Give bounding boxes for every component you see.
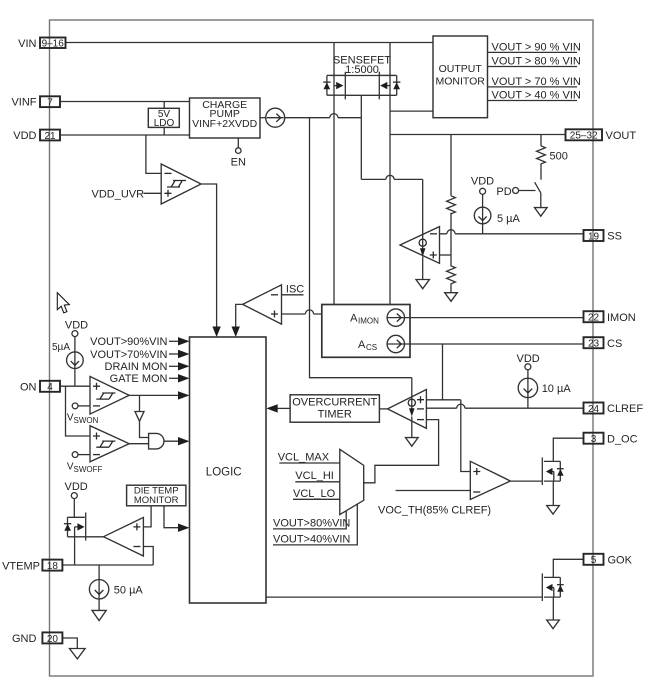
wire VINF	[60, 101, 190, 103]
wire CS branch to overcurrent comparator plus	[442, 344, 444, 400]
svg-text:25–32: 25–32	[570, 131, 598, 142]
wire branch to inverter	[139, 395, 141, 411]
node DRAIN MON	[105, 361, 190, 373]
transistor VTEMP clamp (gate right)	[64, 513, 104, 541]
arrow into LOGIC top (UVR)	[212, 327, 220, 338]
pin VDD 21	[13, 130, 60, 142]
label SENSEFET 1:5000	[333, 55, 391, 77]
pin IMON 22	[584, 311, 636, 324]
wire VOC_TH output to D_OC gate	[510, 480, 542, 482]
svg-text:VDD: VDD	[471, 176, 494, 188]
svg-text:OUTPUT: OUTPUT	[439, 63, 483, 75]
transistor GOK (gate left)	[542, 573, 563, 601]
terminal V_SWON	[67, 403, 99, 425]
wire V_SWON comparator output	[129, 394, 180, 396]
svg-text:TIMER: TIMER	[318, 409, 352, 421]
svg-text:VOUT > 90 % VIN: VOUT > 90 % VIN	[492, 41, 581, 53]
wire VOUT rail	[390, 134, 566, 136]
wire bias through SS comparator	[422, 179, 424, 248]
wire timer to LOGIC	[277, 407, 291, 409]
ground below GOK transistor	[547, 620, 560, 629]
block overcurrent timer	[290, 395, 379, 422]
label VDD (ON source)	[65, 320, 88, 337]
svg-text:18: 18	[47, 561, 59, 572]
wire V_SWOFF comparator output	[129, 443, 148, 445]
svg-text:LOGIC: LOGIC	[206, 467, 242, 479]
switch PD	[535, 168, 541, 208]
current source inside SS comparator	[419, 239, 426, 279]
wire IMON rail	[405, 317, 584, 319]
svg-text:VCL_LO: VCL_LO	[293, 488, 336, 500]
svg-text:21: 21	[44, 131, 56, 142]
wire GOK source to ground	[552, 597, 554, 620]
current source inside overcurrent comparator	[408, 399, 415, 438]
wire CS rail	[405, 343, 584, 345]
svg-text:24: 24	[588, 404, 600, 415]
svg-text:IMON: IMON	[607, 312, 636, 324]
current source 10uA	[518, 370, 571, 408]
current-flow symbol A_CS	[387, 335, 404, 352]
svg-text:PD: PD	[496, 186, 511, 198]
wire sensefet tap to SS comparator bias	[361, 175, 422, 179]
svg-text:19: 19	[588, 231, 600, 242]
terminal V_SWOFF	[67, 452, 103, 474]
wire GND pin	[62, 638, 77, 649]
wire comparator minus to VTEMP rail	[143, 547, 153, 566]
node VCL_LO	[293, 488, 340, 500]
svg-text:CS: CS	[607, 338, 622, 350]
gate AND	[149, 433, 164, 449]
svg-text:500: 500	[550, 151, 568, 163]
wire SS comparator plus input	[440, 254, 452, 256]
resistor SS upper	[447, 196, 456, 214]
wire sensefet right drain/source vertical	[389, 43, 391, 305]
svg-text:VOUT>40%VIN: VOUT>40%VIN	[273, 533, 350, 545]
wire charge pump output rail with hop over x=334	[285, 114, 362, 118]
wire VIN rail	[66, 42, 434, 44]
svg-text:EN: EN	[231, 156, 246, 168]
svg-text:CS: CS	[366, 343, 377, 352]
op-amp overcurrent comparator	[388, 390, 427, 429]
wire sensefet left drain/source vertical	[333, 43, 335, 305]
node VOUT > 70 % VIN	[488, 76, 581, 88]
svg-text:DRAIN MON: DRAIN MON	[105, 361, 168, 373]
inverter (open triangle)	[135, 412, 144, 422]
label PD	[496, 186, 535, 198]
wire charge pump output	[260, 117, 266, 119]
label VDD_UVR	[92, 188, 162, 200]
wire GOK pin to transistor	[553, 559, 583, 577]
svg-text:A: A	[358, 339, 366, 351]
svg-text:ON: ON	[20, 382, 37, 394]
pin D_OC 3	[584, 433, 638, 446]
svg-text:VCL_MAX: VCL_MAX	[278, 452, 330, 464]
mouse cursor	[57, 293, 69, 313]
svg-text:ISC: ISC	[286, 283, 304, 295]
node VOUT > 80 % VIN	[488, 55, 581, 67]
svg-text:23: 23	[588, 339, 600, 350]
wire comparator to timer	[379, 408, 387, 410]
label VDD (SS source)	[471, 176, 494, 195]
wire VOUT to upper divider	[450, 135, 452, 196]
label VDD (CLREF source)	[517, 353, 540, 370]
wire D_OC source to ground	[552, 481, 554, 506]
wire overcurrent plus rail	[426, 399, 460, 401]
wire plus rail down to VOC_TH with hop crossing	[461, 400, 471, 472]
ground below 50uA	[92, 610, 106, 620]
svg-text:VINF: VINF	[11, 97, 36, 109]
op-amp die temp comparator	[104, 517, 144, 556]
svg-text:VDD_UVR: VDD_UVR	[92, 188, 145, 200]
svg-text:9–16: 9–16	[42, 39, 65, 50]
svg-text:VTEMP: VTEMP	[2, 560, 40, 572]
svg-text:VOUT>70%VIN: VOUT>70%VIN	[90, 349, 167, 361]
wire LOGIC to GOK gate	[266, 596, 542, 598]
transistor sensefet left (gate right)	[323, 72, 345, 100]
wire into output monitor	[390, 110, 433, 112]
svg-text:MONITOR: MONITOR	[134, 495, 179, 506]
svg-text:5µA: 5µA	[52, 342, 70, 353]
node VOUT>40%VIN (mux select)	[273, 504, 357, 545]
node VOUT>80%VIN (mux select)	[273, 511, 350, 530]
node VOUT > 90 % VIN	[488, 41, 581, 53]
svg-text:VOUT > 40 % VIN: VOUT > 40 % VIN	[492, 89, 581, 101]
wire SS rail with hop at x=451	[440, 230, 584, 234]
arrow into LOGIC (die temp)	[178, 524, 190, 532]
pin CS 23	[584, 337, 623, 350]
svg-text:VIN: VIN	[18, 38, 36, 50]
svg-text:4: 4	[47, 382, 53, 393]
op-amp VOC_TH comparator	[470, 461, 510, 499]
svg-text:7: 7	[47, 98, 53, 109]
block OUTPUT MONITOR	[433, 36, 488, 118]
node VOUT > 40 % VIN	[488, 89, 581, 101]
wire D_OC pin to transistor	[553, 438, 583, 461]
svg-text:VOUT>80%VIN: VOUT>80%VIN	[273, 518, 350, 530]
svg-text:VINF+2XVDD: VINF+2XVDD	[192, 118, 257, 130]
svg-text:CLREF: CLREF	[607, 403, 643, 415]
svg-text:SS: SS	[607, 231, 622, 243]
svg-text:VOC_TH(85% CLREF): VOC_TH(85% CLREF)	[378, 505, 491, 517]
svg-text:SWOFF: SWOFF	[74, 465, 103, 474]
svg-text:10 µA: 10 µA	[542, 383, 572, 395]
node VOUT>70%VIN	[90, 349, 189, 361]
svg-text:VCL_HI: VCL_HI	[295, 470, 334, 482]
mux VCL selector	[340, 449, 364, 514]
svg-text:A: A	[350, 313, 358, 325]
wire ISC plus input with hop at x=309.5	[282, 310, 322, 314]
wire VTEMP transistor source	[74, 537, 76, 565]
block current sense amplifiers	[322, 305, 410, 358]
current source 5uA (ON)	[52, 337, 83, 387]
wire VOC_TH input	[396, 490, 471, 492]
op-amp ISC comparator	[243, 285, 282, 324]
arrow into LOGIC top (ISC)	[232, 327, 240, 338]
svg-text:SWON: SWON	[74, 416, 99, 425]
resistor 500	[537, 146, 568, 168]
arrow into LOGIC (SWON comparator)	[178, 391, 190, 399]
svg-text:GOK: GOK	[608, 555, 633, 567]
svg-text:OVERCURRENT: OVERCURRENT	[292, 397, 377, 409]
terminal EN	[231, 148, 246, 169]
transistor sensefet right (gate left)	[379, 72, 400, 100]
label VDD (die temp)	[65, 481, 88, 499]
svg-text:VOUT: VOUT	[606, 130, 637, 142]
svg-text:22: 22	[588, 313, 600, 324]
current-flow symbol charge pump output	[266, 108, 285, 127]
wire overcurrent minus lower to mux output	[364, 420, 439, 483]
svg-text:20: 20	[47, 634, 59, 645]
op-amp V_SWON comparator	[90, 377, 129, 415]
pin CLREF 24	[584, 403, 644, 416]
block LOGIC	[190, 337, 267, 603]
svg-text:50 µA: 50 µA	[114, 585, 144, 597]
regulator 5V LDO	[148, 108, 179, 129]
pin ON 4	[20, 381, 60, 394]
svg-text:MONITOR: MONITOR	[436, 75, 486, 87]
wire sensefet common drain top	[330, 75, 396, 77]
wire ON input	[60, 385, 90, 387]
block charge pump	[190, 98, 261, 138]
svg-text:D_OC: D_OC	[607, 433, 638, 445]
pin SS 19	[584, 230, 622, 243]
op-amp VDD_UVR comparator	[161, 164, 201, 204]
ground below PD switch	[535, 208, 548, 217]
pin GOK 5	[584, 554, 633, 567]
pin GND 20	[12, 632, 62, 645]
ground below GND pin	[70, 649, 86, 659]
wire ON branch to lower comparator	[66, 386, 91, 436]
wire die temp monitor to LOGIC	[164, 506, 181, 528]
wire EN stem	[237, 138, 239, 148]
svg-text:VOUT > 70 % VIN: VOUT > 70 % VIN	[492, 76, 581, 88]
block DIE TEMP MONITOR	[127, 485, 186, 506]
ground below SS lower resistor	[445, 293, 458, 302]
wire VDD_UVR output to LOGIC	[201, 184, 217, 328]
wire VDD to VTEMP transistor	[73, 499, 75, 518]
wire 5V LDO taps	[163, 102, 165, 136]
arrow into LOGIC (AND)	[178, 437, 190, 445]
pin VTEMP 18	[2, 560, 62, 573]
pin VOUT 25-32	[566, 129, 637, 142]
wire inverter to AND	[140, 421, 149, 437]
node VCL_HI	[295, 470, 340, 482]
svg-text:5 µA: 5 µA	[497, 213, 521, 225]
wire VDD_UVR tap	[146, 135, 161, 173]
wire 500 resistor top	[540, 135, 542, 146]
op-amp V_SWOFF comparator	[90, 426, 129, 462]
op-amp SS comparator	[400, 227, 440, 264]
node GATE MON	[110, 373, 190, 385]
node VCL_MAX	[278, 452, 340, 464]
label ISC	[282, 283, 305, 295]
resistor SS lower	[447, 255, 456, 293]
svg-text:GND: GND	[12, 633, 37, 645]
svg-text:GATE MON: GATE MON	[110, 373, 168, 385]
wire charge pump node down to ISC/overcurrent	[310, 118, 412, 378]
current-flow symbol A_IMON	[387, 309, 404, 326]
svg-text:3: 3	[591, 434, 597, 445]
pin VINF 7	[11, 96, 60, 108]
pin VIN 9-16	[18, 38, 65, 50]
wire VTEMP rail	[62, 564, 153, 566]
wire comparator plus to die temp monitor	[143, 506, 151, 527]
ground below overcurrent comparator	[406, 438, 419, 447]
svg-text:VOUT>90%VIN: VOUT>90%VIN	[90, 336, 167, 348]
svg-text:5: 5	[591, 555, 597, 566]
ground below SS comparator	[416, 280, 429, 289]
wire VDD	[60, 134, 190, 136]
wire gate rail centre tap down	[360, 95, 362, 179]
wire CLREF rail with hop at x=460.8	[426, 404, 583, 408]
svg-text:1:5000: 1:5000	[345, 64, 379, 76]
arrow into LOGIC right (timer)	[266, 404, 278, 412]
wire divider mid	[450, 213, 452, 255]
svg-text:IMON: IMON	[358, 317, 379, 326]
wire ISC output to LOGIC	[236, 304, 243, 328]
wire AND output	[164, 440, 181, 442]
svg-text:VDD: VDD	[65, 320, 88, 332]
svg-text:VDD: VDD	[65, 481, 88, 493]
wire bias through overcurrent comparator	[411, 378, 413, 409]
current source 50uA	[89, 565, 143, 610]
IC outer border	[50, 20, 594, 676]
svg-text:VDD: VDD	[13, 130, 36, 142]
ground below D_OC transistor	[547, 506, 560, 515]
svg-text:LDO: LDO	[154, 118, 175, 129]
wire sensefet common gate/source rail	[345, 94, 397, 96]
transistor D_OC (gate left)	[542, 457, 563, 485]
svg-text:VOUT > 80 % VIN: VOUT > 80 % VIN	[492, 55, 581, 67]
node VOUT>90%VIN	[90, 336, 189, 348]
current source 5uA (SS)	[474, 194, 520, 234]
